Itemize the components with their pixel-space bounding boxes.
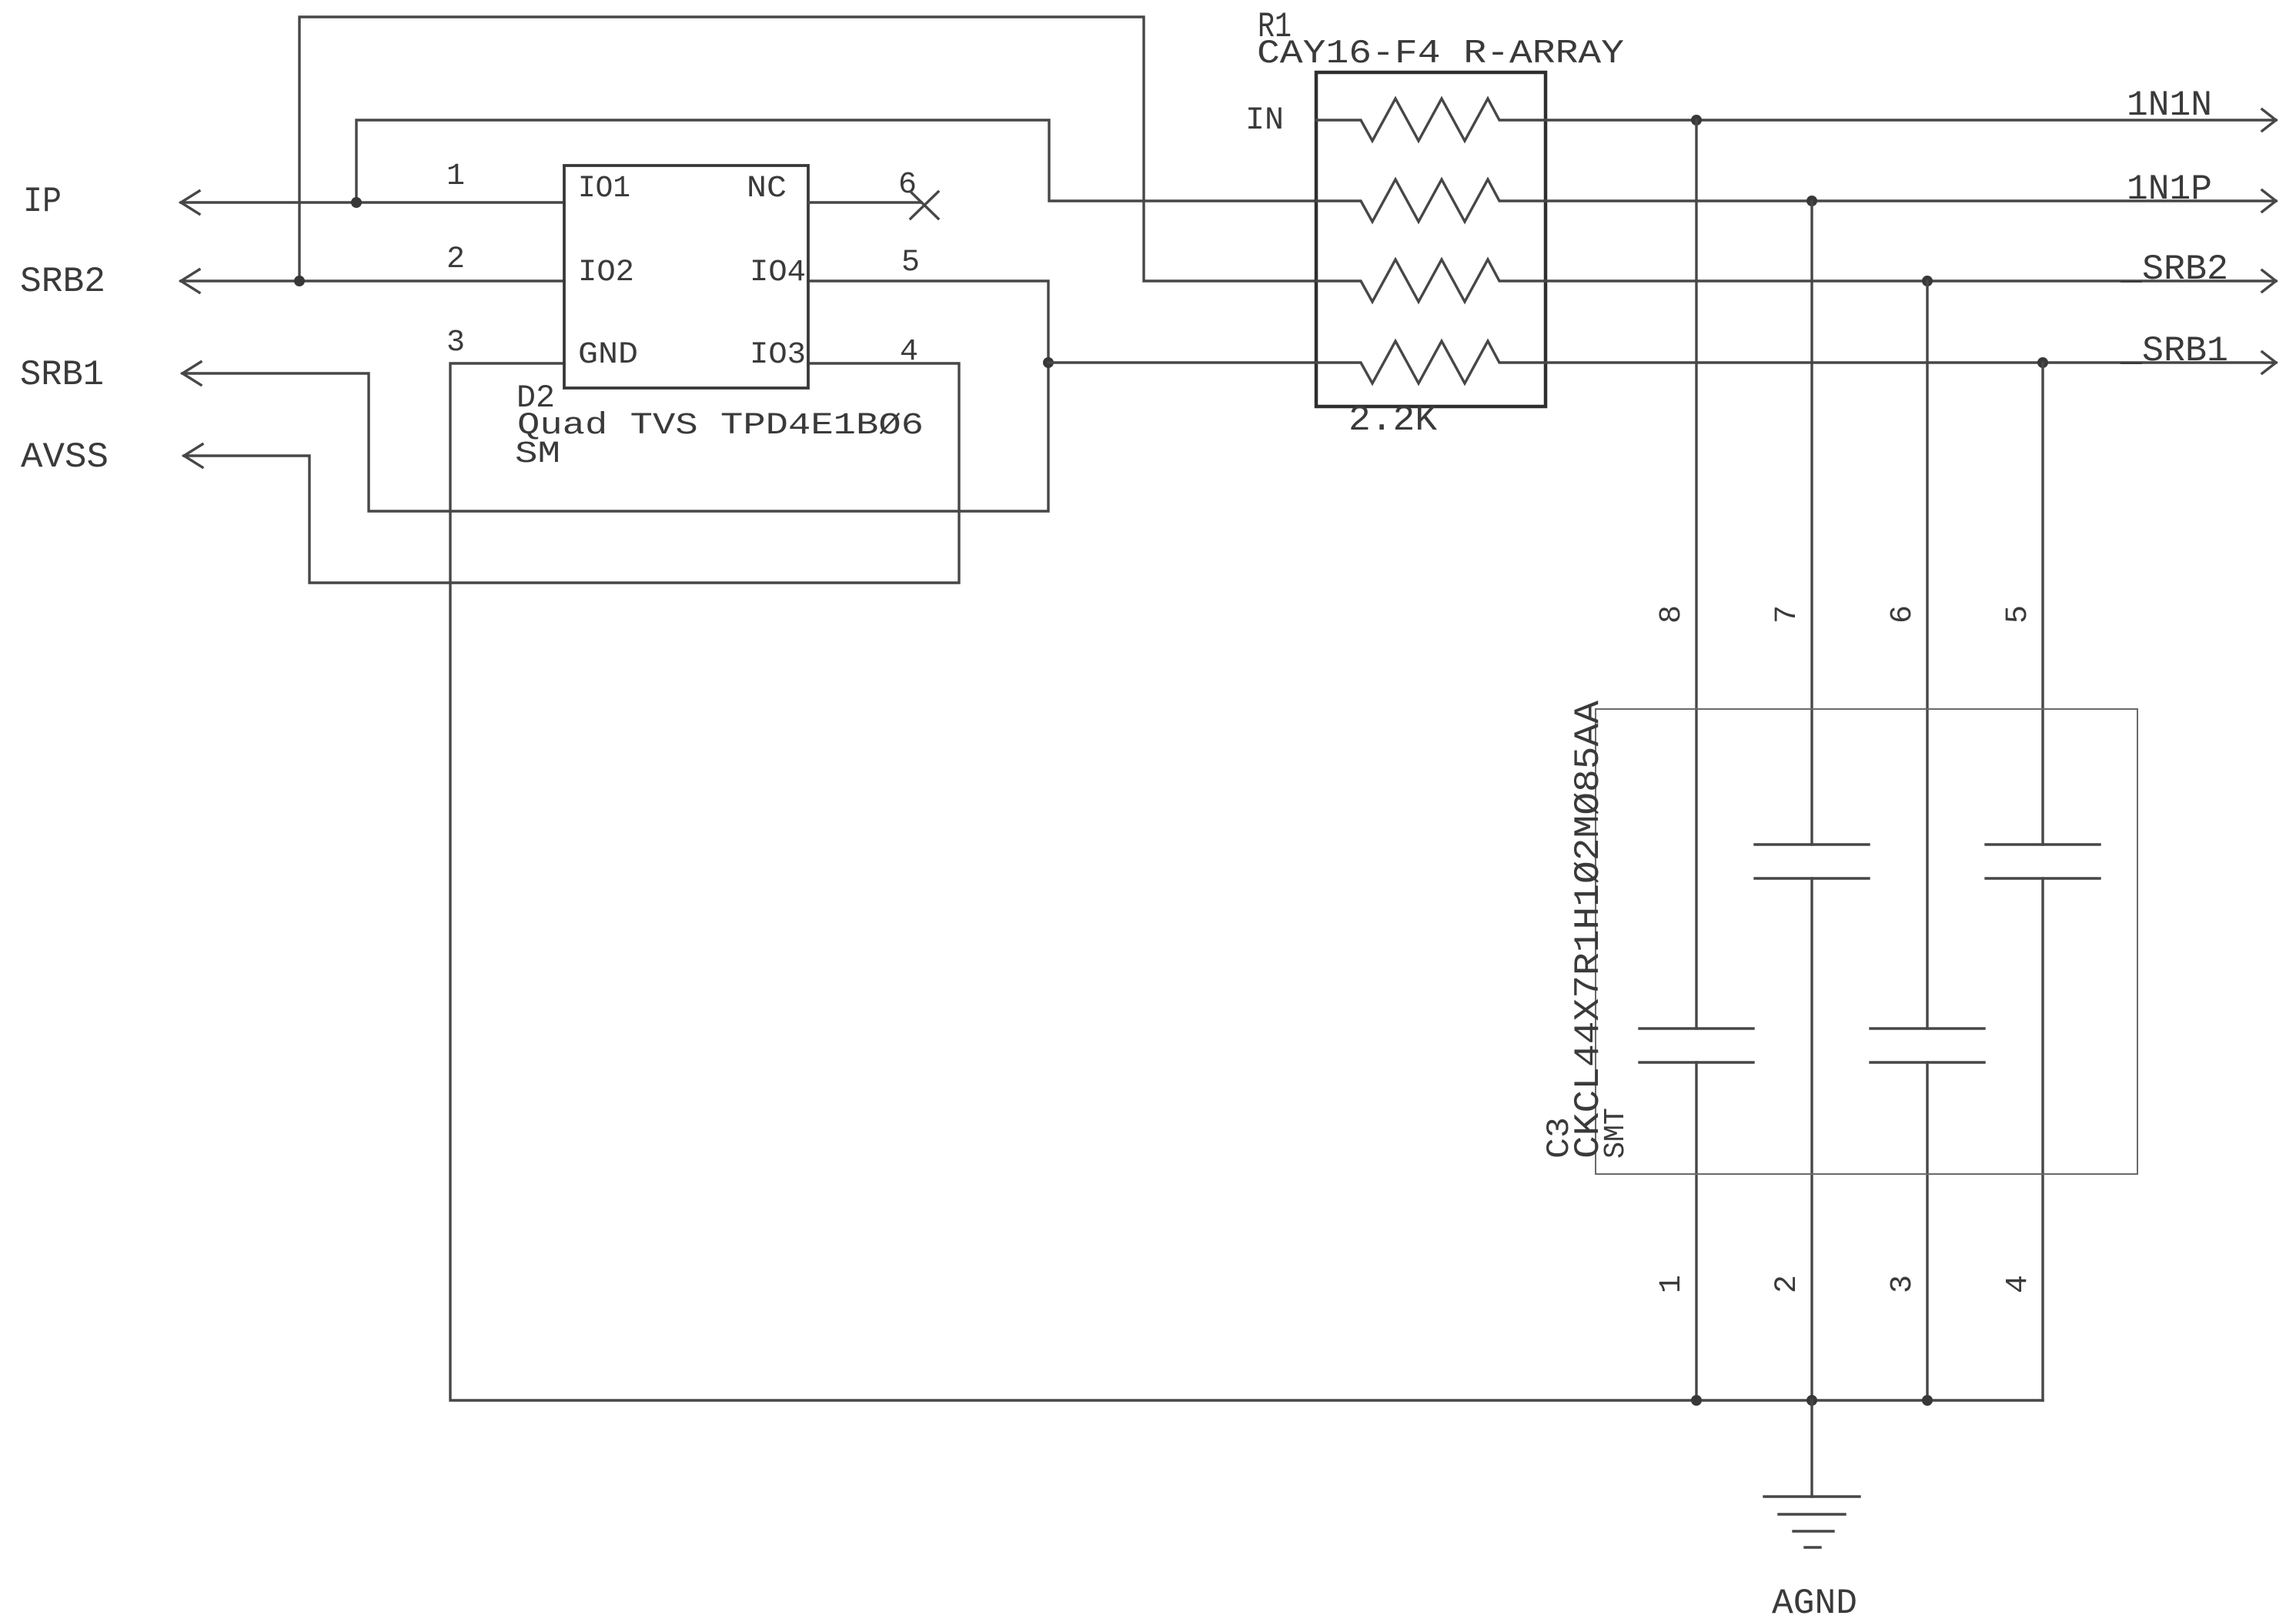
svg-text:SMT: SMT bbox=[1599, 1108, 1633, 1159]
svg-text:4: 4 bbox=[2001, 1275, 2036, 1293]
wire AGND stem bbox=[1810, 1400, 1813, 1497]
capacitor C3d plates bbox=[1986, 843, 2100, 845]
junction IN1P bbox=[1806, 196, 1817, 206]
junction IP/bypass bbox=[351, 197, 362, 208]
junction gnd rail 3 bbox=[1922, 1395, 1933, 1406]
capacitor C3b plates bbox=[1755, 843, 1869, 845]
svg-text:AGND: AGND bbox=[1772, 1584, 1857, 1619]
svg-text:NC: NC bbox=[747, 172, 787, 206]
svg-text:AVSS: AVSS bbox=[21, 437, 109, 477]
svg-text:2: 2 bbox=[1770, 1275, 1805, 1293]
svg-text:Quad TVS TPD4E1BØ6: Quad TVS TPD4E1BØ6 bbox=[517, 409, 924, 443]
resistor array R1 bbox=[1316, 72, 1546, 406]
arrow IN1P bbox=[2262, 190, 2276, 212]
svg-text:3: 3 bbox=[1886, 1275, 1920, 1293]
svg-text:7: 7 bbox=[1770, 605, 1805, 624]
svg-text:IO3: IO3 bbox=[750, 338, 806, 373]
arrow SRB2 bbox=[181, 269, 199, 293]
wire cap leg 4 bbox=[2041, 363, 2044, 845]
svg-text:IN: IN bbox=[1245, 102, 1284, 139]
capacitor C3c plates bbox=[1870, 1027, 1984, 1029]
junction gnd rail 1 bbox=[1691, 1395, 1702, 1406]
wire cap leg 1 bbox=[1695, 120, 1697, 1029]
svg-text:_SRB2: _SRB2 bbox=[2120, 249, 2228, 289]
junction gnd rail 2 bbox=[1806, 1395, 1817, 1406]
arrow IP bbox=[181, 191, 199, 214]
wire SRB2 row bbox=[181, 279, 564, 282]
svg-text:3: 3 bbox=[446, 326, 465, 360]
wire IP bypass bbox=[356, 120, 1316, 202]
svg-text:1N1N: 1N1N bbox=[2127, 85, 2212, 125]
resistor R1c bbox=[1316, 259, 1546, 302]
svg-text:CKCL44X7R1H1Ø2MØ85AA: CKCL44X7R1H1Ø2MØ85AA bbox=[1569, 701, 1609, 1159]
svg-text:5: 5 bbox=[2001, 605, 2036, 624]
junction SRB1/R1 pin bbox=[1043, 357, 1054, 368]
arrow SRB1 bbox=[182, 362, 201, 385]
svg-text:8: 8 bbox=[1655, 605, 1689, 624]
resistor R1a bbox=[1316, 99, 1546, 141]
junction SRB2/bypass bbox=[294, 276, 305, 286]
wire IP row bbox=[181, 201, 564, 203]
wire SRB1 row bbox=[182, 281, 1048, 511]
svg-text:GND: GND bbox=[578, 338, 638, 373]
svg-text:IO1: IO1 bbox=[578, 172, 630, 206]
capacitor array C3 box bbox=[1596, 709, 2137, 1174]
svg-text:_SRB1: _SRB1 bbox=[2120, 331, 2228, 371]
svg-text:6: 6 bbox=[898, 168, 917, 202]
arrow _SRB2 bbox=[2262, 270, 2276, 292]
wire _SRB1 to R1 input bbox=[1048, 361, 1316, 363]
ground AGND symbol bbox=[1764, 1497, 1860, 1547]
wire IN1N out bbox=[1546, 119, 2276, 121]
no-connect X pin6 bbox=[911, 192, 938, 219]
junction _SRB1 bbox=[2037, 357, 2048, 368]
resistor R1b bbox=[1316, 179, 1546, 222]
svg-text:IO2: IO2 bbox=[578, 256, 634, 290]
svg-text:SRB2: SRB2 bbox=[20, 262, 105, 302]
svg-text:IO4: IO4 bbox=[750, 256, 806, 290]
svg-text:CAY16-F4 R-ARRAY: CAY16-F4 R-ARRAY bbox=[1257, 35, 1624, 73]
svg-text:SRB1: SRB1 bbox=[20, 355, 104, 395]
wire cap leg 2 bbox=[1810, 201, 1813, 845]
junction IN1N bbox=[1691, 115, 1702, 125]
wire _SRB1 out bbox=[1546, 361, 2276, 363]
svg-text:1: 1 bbox=[1655, 1275, 1689, 1293]
svg-text:2: 2 bbox=[446, 243, 465, 277]
wire SRB2 bypass top bbox=[299, 17, 1316, 281]
diode array D2 bbox=[564, 166, 808, 388]
svg-text:2.2K: 2.2K bbox=[1349, 400, 1437, 440]
resistor R1d bbox=[1316, 341, 1546, 383]
svg-text:5: 5 bbox=[901, 246, 920, 280]
wire cap leg 3 bbox=[1926, 281, 1928, 1029]
svg-text:4: 4 bbox=[900, 335, 918, 370]
arrow IN1N bbox=[2262, 109, 2276, 131]
svg-text:IP: IP bbox=[23, 182, 62, 222]
svg-text:SM: SM bbox=[515, 437, 560, 472]
svg-text:1N1P: 1N1P bbox=[2127, 169, 2212, 209]
arrow AVSS bbox=[184, 444, 202, 467]
wire GND pin3 bbox=[450, 363, 2043, 1400]
wire _SRB2 out bbox=[1546, 279, 2276, 282]
wire AVSS row bbox=[184, 363, 959, 583]
arrow _SRB1 bbox=[2262, 352, 2276, 373]
junction _SRB2 bbox=[1922, 276, 1933, 286]
svg-text:1: 1 bbox=[446, 159, 465, 194]
svg-text:6: 6 bbox=[1886, 605, 1920, 624]
capacitor C3a plates bbox=[1639, 1027, 1753, 1029]
wire IN1P out bbox=[1546, 199, 2276, 202]
wire pin6 NC stub bbox=[808, 201, 921, 203]
